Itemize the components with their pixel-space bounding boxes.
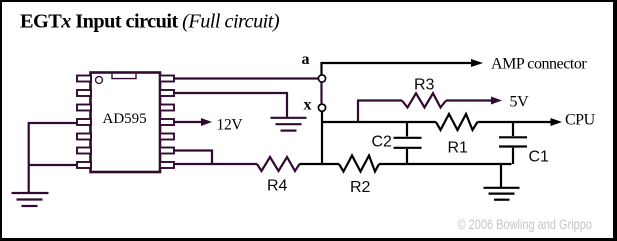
pin R6: [160, 148, 174, 154]
node a terminal circle: [318, 75, 325, 82]
R1 label: [448, 140, 469, 157]
copyright notice: [458, 216, 593, 232]
wire R1 to CPU arrow: [478, 121, 552, 123]
op-amp U1 AD595 body: [91, 73, 161, 173]
ground (bottom right) stem: [500, 164, 502, 187]
resistor R3: [402, 93, 446, 107]
svg-text:C1: C1: [529, 149, 550, 166]
ground (bottom right): [484, 188, 520, 200]
svg-text:5V: 5V: [510, 94, 530, 111]
capacitor C1 plates: [499, 137, 527, 146]
svg-text:a: a: [302, 51, 310, 68]
5V label: [510, 94, 530, 111]
node x terminal circle: [318, 104, 325, 111]
wire pin L7 to left rail: [29, 164, 77, 166]
svg-text:AD595: AD595: [103, 111, 147, 127]
wire node a up to AMP connector: [322, 63, 473, 75]
wire pin R4 to 12V arrow: [173, 121, 202, 123]
svg-text:CPU: CPU: [565, 112, 596, 129]
pin L6: [77, 148, 91, 154]
pin L1: [77, 76, 91, 82]
resistor R2: [339, 156, 379, 172]
AD595 value label: [103, 111, 147, 127]
title EGTx Input circuit (Full circuit): [20, 10, 280, 32]
pin L7: [77, 162, 91, 168]
wire pin R2 to ground: [173, 93, 287, 117]
pin R3: [160, 105, 174, 111]
wire R4 to R2 (black): [300, 163, 340, 165]
node a label: [302, 51, 310, 68]
capacitor C1 stem bottom: [512, 148, 514, 164]
R2 label: [350, 179, 371, 196]
svg-text:EGTx Input circuit (Full circu: EGTx Input circuit (Full circuit): [20, 10, 280, 32]
wire pin R7 to R4: [173, 163, 257, 165]
wire pin R6 jog down: [173, 151, 212, 165]
pin R7: [160, 162, 174, 168]
capacitor C2 stem top: [406, 122, 408, 136]
svg-text:© 2006 Bowling and Grippo: © 2006 Bowling and Grippo: [458, 216, 593, 232]
pin R5: [160, 134, 174, 140]
AD595 pin-1 indicator circle: [96, 77, 103, 84]
R3 tap wire (purple): [358, 101, 402, 122]
ground (left): [12, 193, 49, 206]
12V arrowhead: [201, 118, 212, 126]
12V label: [217, 117, 244, 134]
wire pin R1 to node a: [173, 77, 318, 79]
C2 label: [372, 134, 393, 151]
R4 label: [267, 178, 288, 195]
svg-text:R3: R3: [414, 77, 435, 94]
AMP arrowhead: [471, 59, 483, 67]
wire node x down to bottom rail: [321, 112, 323, 165]
wire pin L4 to left rail: [29, 123, 77, 192]
pin L4: [77, 119, 91, 125]
capacitor C2 stem bottom: [406, 149, 408, 164]
svg-text:R2: R2: [350, 179, 371, 196]
C1 label: [529, 149, 550, 166]
wire middle rail to R1: [321, 121, 436, 123]
capacitor C1 stem top: [512, 122, 514, 136]
svg-text:AMP connector: AMP connector: [491, 55, 587, 72]
node x label: [304, 96, 312, 113]
5V arrowhead: [491, 97, 502, 105]
pin R1: [160, 76, 174, 82]
svg-text:12V: 12V: [217, 117, 244, 134]
pin L2: [77, 90, 91, 96]
capacitor C2 plates: [394, 138, 422, 148]
svg-text:x: x: [304, 96, 312, 113]
AMP connector label: [491, 55, 587, 72]
wire R3 to 5V arrow: [446, 99, 492, 101]
svg-text:R1: R1: [448, 140, 469, 157]
R3 label: [414, 77, 435, 94]
svg-text:R4: R4: [267, 178, 288, 195]
wire a to x (purple): [320, 82, 322, 104]
CPU label: [565, 112, 596, 129]
pin L5: [77, 134, 91, 140]
pin R4: [160, 119, 174, 125]
CPU arrowhead: [551, 118, 563, 126]
ground (middle, pin R2): [271, 118, 307, 131]
resistor R4: [257, 157, 300, 171]
pin R2: [160, 90, 174, 96]
svg-text:C2: C2: [372, 134, 393, 151]
AD595 notch: [112, 74, 136, 79]
wire R2 to C1 bottom (black): [379, 163, 512, 165]
pin L3: [77, 105, 91, 111]
resistor R1: [436, 114, 478, 130]
